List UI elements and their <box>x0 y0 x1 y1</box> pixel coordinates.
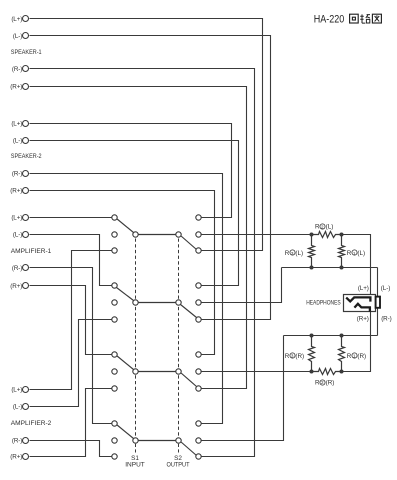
svg-text:R: R <box>315 224 320 231</box>
switch S2 pole-3 circle <box>176 369 181 374</box>
terminal AMPLIFIER-2 (L+) <box>23 387 29 393</box>
switch S2 contact g3 row1 <box>196 352 201 357</box>
node L rail right junction <box>340 233 344 237</box>
svg-text:3: 3 <box>291 251 294 256</box>
switch S2 pole-4 circle <box>176 438 181 443</box>
switch S2 contact g1 row3 <box>196 248 201 253</box>
wire SPEAKER-1 (R-) terminal to S2 contact <box>30 69 255 457</box>
headphone jack ring contact (R) <box>354 304 370 312</box>
headphone jack tip contact (L) <box>346 297 370 301</box>
svg-text:(L-): (L-) <box>13 231 22 238</box>
svg-text:OUTPUT: OUTPUT <box>167 462 190 469</box>
switch S1 contact g4 row2 <box>112 438 117 443</box>
wire R common to S2 (R-) middle contact <box>201 336 284 441</box>
terminal SPEAKER-1 (R-) <box>23 66 29 72</box>
svg-text:(R): (R) <box>357 353 366 360</box>
terminal AMPLIFIER-2 (L-) <box>23 404 29 410</box>
switch S2 pole-4 (R-) lever <box>181 442 197 456</box>
wire SPEAKER-1 (R+) terminal to S2 contact <box>30 87 247 389</box>
switch S2 pole-3 (R+) lever <box>181 373 197 387</box>
switch S1 pole-4 circle <box>133 438 138 443</box>
switch S1-S2 pole link wire (L-) <box>138 302 176 304</box>
wire jack sleeve to R common rail <box>377 308 379 336</box>
headphone jack J1 body <box>344 295 376 312</box>
svg-text:(L-): (L-) <box>13 404 22 411</box>
switch S2 contact g2 row3 <box>196 317 201 322</box>
switch S2 pole-2 (L-) lever <box>181 305 197 318</box>
resistor R2(L) horizontal <box>312 232 342 238</box>
svg-text:(R-): (R-) <box>381 315 391 322</box>
label R2(R) <box>315 379 334 386</box>
title kanji 回 (drawn) <box>350 14 359 23</box>
node R common left junction <box>310 334 314 338</box>
switch S1 pole-1 circle <box>133 232 138 237</box>
terminal SPEAKER-1 (L+) <box>23 16 29 22</box>
label R3(L) <box>285 250 303 257</box>
switch S1 pole-2 circle <box>133 300 138 305</box>
terminal AMPLIFIER-2 (R+) <box>23 454 29 460</box>
terminal AMPLIFIER-1 (R+) <box>23 283 29 289</box>
terminal SPEAKER-2 (L+) <box>23 121 29 127</box>
terminal AMPLIFIER-2 (R-) <box>23 438 29 444</box>
wire SPEAKER-2 (L+) terminal to S2 contact <box>30 124 232 218</box>
svg-text:R: R <box>315 379 320 386</box>
svg-text:(R+): (R+) <box>357 315 369 322</box>
wire AMPLIFIER-2 (L-) terminal to S1 contact <box>30 320 112 407</box>
terminal SPEAKER-1 (L-) <box>23 33 29 39</box>
svg-text:AMPLIFIER-1: AMPLIFIER-1 <box>11 248 52 255</box>
svg-text:3: 3 <box>291 354 294 359</box>
wire R rail to jack ring feed <box>342 310 371 372</box>
resistor R1(R) vertical <box>339 336 345 372</box>
wire AMPLIFIER-1 (R+) terminal to S1 contact <box>30 286 112 355</box>
switch S2 contact g2 row2 <box>196 300 201 305</box>
wire L common to S2 (L-) middle contact <box>201 268 282 303</box>
svg-text:(L): (L) <box>326 224 334 231</box>
node R rail right junction <box>340 370 344 374</box>
svg-text:HEADPHONES: HEADPHONES <box>306 300 341 307</box>
wire SPEAKER-2 (L-) terminal to S2 contact <box>30 141 239 286</box>
svg-text:(L+): (L+) <box>358 285 369 292</box>
svg-text:SPEAKER-1: SPEAKER-1 <box>11 49 42 56</box>
wire AMPLIFIER-1 (R-) terminal to S1 contact <box>30 268 112 424</box>
switch S1 contact g1 row2 <box>112 232 117 237</box>
switch S1 dashed gang line <box>135 239 137 453</box>
switch S1-S2 pole link wire (R-) <box>138 440 176 442</box>
switch S2 contact g4 row1 <box>196 421 201 426</box>
switch S2 contact g3 row3 <box>196 386 201 391</box>
switch S1 contact g3 row3 <box>112 386 117 391</box>
switch S1 contact g3 row2 <box>112 369 117 374</box>
switch S1 contact g2 row3 <box>112 317 117 322</box>
switch S1 contact g2 row1 <box>112 283 117 288</box>
svg-text:(R+): (R+) <box>10 454 22 461</box>
svg-text:2: 2 <box>321 224 324 229</box>
svg-text:R: R <box>347 250 352 257</box>
title kanji 図 (drawn) <box>372 14 381 23</box>
svg-text:(L): (L) <box>357 250 365 257</box>
switch S1 contact g4 row3 <box>112 454 117 459</box>
terminal AMPLIFIER-1 (R-) <box>23 265 29 271</box>
svg-text:(R-): (R-) <box>12 265 22 272</box>
terminal SPEAKER-1 (R+) <box>23 84 29 90</box>
svg-text:(L+): (L+) <box>11 387 22 394</box>
switch S2 contact g1 row1 <box>196 215 201 220</box>
wire AMPLIFIER-2 (L+) terminal to S1 contact <box>30 251 112 390</box>
wire L common rail (bottom) <box>282 267 378 269</box>
svg-text:R: R <box>347 353 352 360</box>
svg-text:(R+): (R+) <box>10 83 22 90</box>
svg-text:(L+): (L+) <box>11 16 22 23</box>
svg-text:(L-): (L-) <box>13 138 22 145</box>
wire S2 (L+) contact to L attenuator rail / node <box>201 234 312 236</box>
terminal AMPLIFIER-1 (L+) <box>23 215 29 221</box>
label R3(R) <box>285 353 304 360</box>
label R1(L) <box>347 250 365 257</box>
node L common right junction <box>340 266 344 270</box>
svg-text:(R+): (R+) <box>10 188 22 195</box>
resistor R1(L) vertical <box>339 235 345 268</box>
resistor R2(R) horizontal <box>312 369 342 375</box>
svg-text:(R-): (R-) <box>12 171 22 178</box>
wire AMPLIFIER-1 (L+) terminal to S1 contact <box>30 217 112 219</box>
terminal SPEAKER-2 (L-) <box>23 138 29 144</box>
wire S2 (R+) contact to R attenuator rail <box>201 371 312 373</box>
svg-text:(L+): (L+) <box>11 121 22 128</box>
wire SPEAKER-2 (R+) terminal to S2 contact <box>30 191 215 355</box>
svg-text:AMPLIFIER-2: AMPLIFIER-2 <box>11 420 52 427</box>
switch S1 contact g1 row1 <box>112 215 117 220</box>
title kanji 路 (drawn) <box>360 14 370 23</box>
node R rail left junction <box>310 370 314 374</box>
switch S1 pole-4 (R-) lever <box>117 425 134 439</box>
switch S1 contact g1 row3 <box>112 248 117 253</box>
svg-text:1: 1 <box>353 251 356 256</box>
svg-text:(L-): (L-) <box>13 33 22 40</box>
wire L rail to jack tip feed <box>342 235 371 298</box>
node L common left junction <box>310 266 314 270</box>
wire SPEAKER-2 (R-) terminal to S2 contact <box>30 174 223 424</box>
headphone jack sleeve contact <box>376 297 380 308</box>
svg-text:1: 1 <box>353 354 356 359</box>
wire AMPLIFIER-2 (R-) terminal to S1 contact <box>30 441 112 457</box>
switch S2 contact g4 row2 <box>196 438 201 443</box>
switch S2 contact g2 row1 <box>196 283 201 288</box>
switch S1 contact g3 row1 <box>112 352 117 357</box>
node R common right junction <box>340 334 344 338</box>
wire AMPLIFIER-1 (L-) terminal to S1 contact <box>30 235 112 286</box>
switch S2 pole-1 (L+) lever <box>181 236 197 250</box>
switch S1-S2 pole link wire (R+) <box>138 371 176 373</box>
svg-text:R: R <box>285 250 290 257</box>
switch S1 pole-1 (L+) lever <box>117 219 134 233</box>
switch S2 pole-2 circle <box>176 300 181 305</box>
svg-text:(L-): (L-) <box>381 285 390 292</box>
wire AMPLIFIER-2 (R+) terminal to S1 contact <box>30 389 112 457</box>
wire SPEAKER-1 (L-) terminal to S2 contact <box>30 36 271 320</box>
svg-text:INPUT: INPUT <box>125 462 145 469</box>
switch S1 contact g2 row2 <box>112 300 117 305</box>
switch S1 contact g4 row1 <box>112 421 117 426</box>
terminal SPEAKER-2 (R+) <box>23 188 29 194</box>
switch S2 contact g1 row2 <box>196 232 201 237</box>
switch S1-S2 pole link wire (L+) <box>138 234 176 236</box>
svg-text:(R): (R) <box>295 353 304 360</box>
switch S2 contact g3 row2 <box>196 369 201 374</box>
svg-text:HA-220: HA-220 <box>314 14 345 26</box>
svg-text:(R-): (R-) <box>12 437 22 444</box>
switch S1 pole-2 (L-) lever <box>117 288 134 301</box>
label R2(L) <box>315 224 333 231</box>
resistor R3(R) vertical <box>309 336 315 372</box>
switch S2 dashed gang line <box>178 239 180 453</box>
wire L common to jack sleeve <box>377 268 379 297</box>
wire SPEAKER-1 (L+) terminal to S2 contact <box>30 19 263 251</box>
switch S1 pole-3 circle <box>133 369 138 374</box>
label R1(R) <box>347 353 366 360</box>
node L rail left junction <box>310 233 314 237</box>
svg-text:(R+): (R+) <box>10 283 22 290</box>
svg-text:R: R <box>285 353 290 360</box>
resistor R3(L) vertical <box>309 235 315 268</box>
switch S1 pole-3 (R+) lever <box>117 356 134 370</box>
switch S2 pole-1 circle <box>176 232 181 237</box>
svg-text:(R): (R) <box>326 379 335 386</box>
terminal SPEAKER-2 (R-) <box>23 171 29 177</box>
wire R common rail (top) <box>284 335 378 337</box>
svg-text:(R-): (R-) <box>12 66 22 73</box>
terminal AMPLIFIER-1 (L-) <box>23 232 29 238</box>
switch S2 contact g4 row3 <box>196 454 201 459</box>
svg-text:2: 2 <box>321 380 324 385</box>
svg-text:(L+): (L+) <box>11 214 22 221</box>
svg-text:SPEAKER-2: SPEAKER-2 <box>11 153 42 160</box>
svg-text:(L): (L) <box>295 250 303 257</box>
